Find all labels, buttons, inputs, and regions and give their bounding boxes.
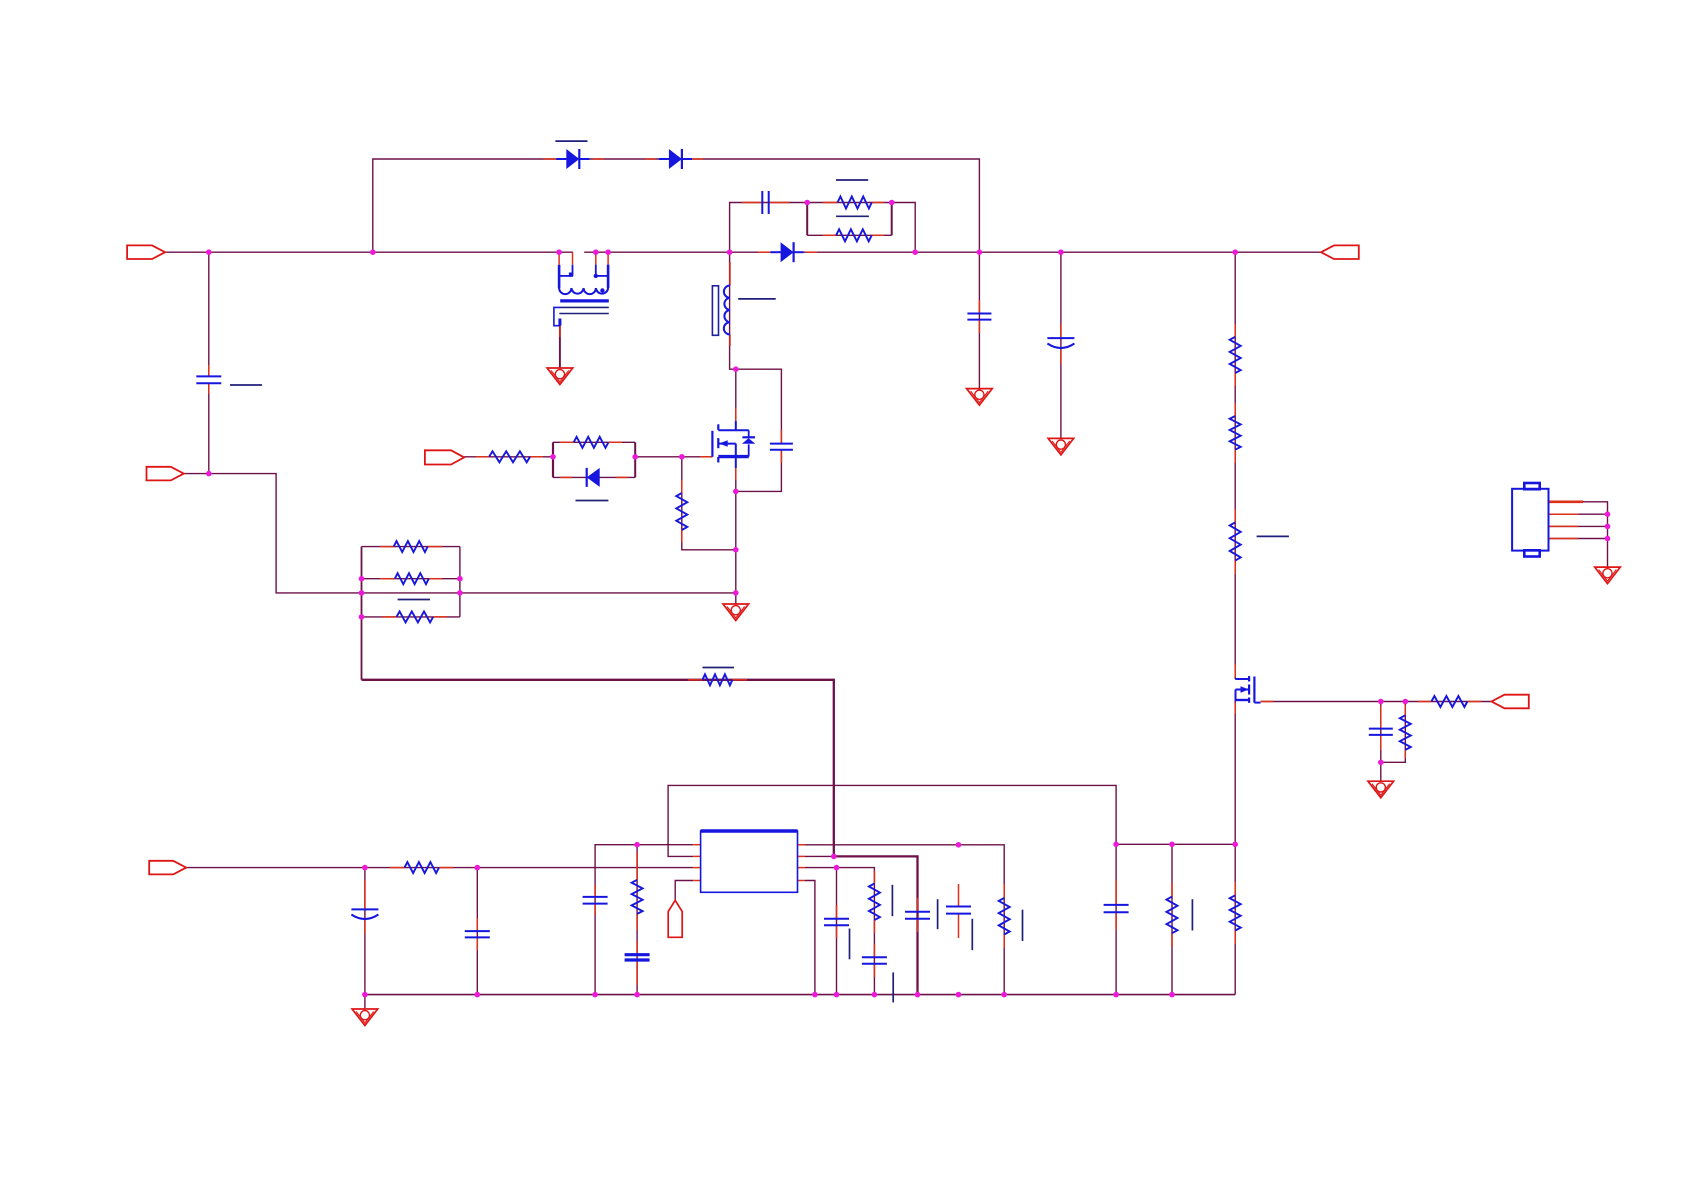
pin stub transformer pin1: [558, 252, 560, 265]
pin stubs divider R mid: [380, 578, 442, 580]
resistor R snubber bottom: [836, 229, 872, 241]
label R snubber bottom: [836, 215, 869, 217]
diode D1: [556, 149, 589, 169]
wire connector pin1: [1549, 502, 1608, 567]
wire input filter cap branch: [364, 868, 366, 995]
resistor R gate pulldown: [676, 493, 687, 530]
wire port2 to divider network: [184, 474, 362, 593]
diode D4 gate box: [587, 468, 600, 487]
pin stubs R1172: [1171, 883, 1173, 947]
pin stubs C637: [636, 941, 638, 985]
wire bulk cap drop: [208, 252, 210, 376]
ground at Q2 gate RC: [1368, 781, 1394, 798]
label R874: [891, 885, 893, 916]
resistor R Q2 gate gnd: [1400, 715, 1411, 750]
wire main bus left segment (VIN+ rail): [165, 251, 573, 253]
resistor R rail1: [1230, 337, 1241, 373]
wire bottom ground bus: [365, 994, 1235, 996]
connector J1: [1512, 483, 1548, 557]
label C836: [849, 929, 851, 960]
resistor R gate box: [574, 437, 609, 448]
pin stubs rail R3: [1234, 509, 1236, 574]
pin stub connector pin3 red: [1549, 525, 1579, 527]
resistor R1235: [1230, 895, 1241, 930]
wire divider row top: [362, 546, 460, 548]
resistor R637: [632, 880, 643, 914]
capacitor C bus1: [967, 314, 991, 320]
wire gate box left edge: [552, 442, 554, 477]
wire drain-source snubber cap branch: [736, 369, 782, 443]
pin stubs divider R bottom: [382, 616, 447, 618]
wire gate pulldown branch: [682, 457, 736, 550]
capacitor C bus2 polarized: [1047, 338, 1074, 348]
pin stub connector pin2 red: [1549, 513, 1579, 515]
pin stub transformer pin3: [595, 252, 597, 264]
U1 controller IC: [701, 831, 798, 892]
pin stubs divider R top: [380, 546, 442, 548]
pin stub transformer pin4: [607, 252, 609, 264]
pin stubs snubber R bottom: [823, 234, 884, 236]
capacitor C637 thick: [625, 955, 650, 960]
wire U1 pin8 row: [805, 845, 1004, 995]
wire snubber box output: [892, 203, 916, 253]
capacitor C1 bulk: [196, 376, 221, 383]
pin stubs C595: [594, 885, 596, 915]
wire bus cap1 drop: [978, 252, 980, 388]
capacitor C836: [824, 919, 849, 926]
pin stubs C917: [917, 898, 919, 932]
pin stubs Q2 gate cap: [1380, 706, 1382, 750]
resistor R divider mid: [395, 573, 429, 584]
resistor R1172: [1167, 897, 1178, 934]
capacitor C snubber: [762, 191, 768, 214]
capacitor C917: [905, 912, 930, 919]
pin stubs bus cap2: [1060, 324, 1062, 364]
wire connector pin3: [1549, 525, 1608, 527]
wire U1 pin1 row: [595, 845, 693, 995]
wire opto rail: [1171, 844, 1173, 994]
pin stubs Q2 gate resistor: [1418, 701, 1481, 703]
wire U1 pin3 input row: [186, 867, 693, 869]
wire snubber box left edge: [806, 203, 808, 236]
port P2 divider input: [147, 467, 184, 481]
ground at connector: [1595, 567, 1621, 584]
port P5 output right: [1321, 245, 1359, 259]
wire sense line long bottom: [362, 680, 834, 857]
capacitor C595: [583, 897, 608, 904]
pin stubs R1004: [1003, 884, 1005, 948]
transformer T1: [554, 265, 609, 326]
wire feedback row to output rail: [1116, 843, 1235, 845]
pin stub transformer pin2: [572, 252, 574, 265]
wire snubber cap to source node: [736, 450, 782, 492]
pin stubs gate box resistor: [560, 441, 622, 443]
wire snubber cap branch: [730, 203, 808, 253]
pin stub transformer aux: [559, 326, 561, 337]
wire gate box top row: [553, 441, 635, 443]
pin stubs U1 left: [693, 845, 700, 881]
ground at bus cap2: [1048, 438, 1074, 455]
label D4: [576, 500, 609, 502]
wire snubber box bottom: [807, 234, 892, 236]
pin stubs C836: [836, 905, 838, 938]
inductor L1 with core bar: [712, 286, 730, 336]
wire Q2 gate res branch: [1381, 702, 1406, 763]
resistor R874: [869, 884, 880, 921]
wire transformer aux to ground: [559, 326, 561, 368]
pin stubs R874: [873, 871, 875, 933]
capacitor C Q2 gate: [1369, 729, 1393, 735]
resistor R divider bottom: [397, 611, 434, 622]
pin stubs rail R1: [1234, 324, 1236, 386]
wire main bus right segment: [584, 251, 1321, 253]
wire feedback drop to bus: [1115, 844, 1117, 994]
port P4 gate drive: [425, 450, 464, 464]
wire ground stub below bus: [364, 995, 366, 1009]
wire top snubber loop: [373, 159, 980, 252]
resistor R input: [405, 862, 440, 873]
wire output rail lower: [1234, 844, 1236, 994]
wire Q1 source chain: [735, 457, 737, 604]
port P3 supply input: [149, 861, 186, 875]
pin stubs input resistor: [390, 867, 453, 869]
pin stubs R1235: [1234, 882, 1236, 944]
capacitor C input2: [465, 931, 490, 937]
wire gate box to Q1 gate: [635, 456, 712, 458]
wire Q2 gate cap branch: [1380, 702, 1382, 763]
transistor Q2 MOSFET: [1235, 676, 1260, 703]
wire gate box bottom row: [553, 476, 635, 478]
wire connector pin2: [1549, 513, 1608, 515]
wire divider output row: [362, 592, 736, 594]
resistor R divider top: [394, 541, 428, 552]
label C1: [230, 384, 262, 386]
pin stubs Q2: [1235, 664, 1273, 714]
pin stub connector pin1 red: [1549, 500, 1584, 503]
pin stubs bulk cap C1: [208, 365, 210, 394]
wire inductor branch: [730, 252, 736, 369]
label C917: [937, 899, 939, 929]
wire gate box right edge: [634, 442, 636, 477]
wire bus cap2 drop: [1060, 252, 1062, 438]
pin stubs snubber R top: [823, 202, 884, 204]
pin stub connector pin4 red: [1549, 538, 1579, 540]
label R rail3: [1257, 535, 1289, 537]
pin stubs snubber cap: [742, 202, 789, 204]
pin stubs R637: [636, 852, 638, 930]
wire Q2 gate line: [1261, 701, 1492, 703]
label R1004: [1022, 910, 1024, 941]
capacitor C input polarized: [351, 909, 378, 919]
pin stubs diode D2: [645, 158, 703, 160]
transistor Q1 MOSFET: [712, 421, 755, 468]
wire U1 pin4 to flag: [675, 881, 693, 901]
label C958: [971, 919, 973, 950]
ground at transformer aux: [547, 368, 573, 385]
label L1: [738, 298, 776, 300]
ground at bus cap1: [967, 389, 993, 406]
pin stubs gate box diode: [560, 476, 628, 478]
pin stubs gate resistor: [476, 456, 543, 458]
diode D2: [659, 149, 692, 169]
pin stubs C1116: [1115, 880, 1117, 930]
wire divider row mid: [362, 578, 460, 580]
resistor R sense: [703, 674, 733, 685]
wire Q2 gate RC ground stub: [1380, 762, 1382, 781]
wire U1 pin6 row: [805, 868, 874, 995]
wire output rail upper: [1234, 252, 1236, 679]
capacitor C874: [862, 957, 887, 964]
resistor R rail2: [1230, 416, 1241, 450]
wire U1 pin7 row: [805, 856, 918, 994]
wire divider right edge: [459, 547, 461, 617]
wire output rail Q2 source: [1234, 700, 1236, 844]
label D1: [555, 140, 587, 142]
port P1 line input: [127, 245, 165, 259]
pin stubs Q1 snubber cap: [780, 430, 782, 463]
label R1172: [1191, 899, 1193, 930]
ground at Q1 source: [723, 604, 749, 621]
wire drain node to Q1: [735, 369, 737, 430]
wire divider row bottom: [362, 616, 460, 618]
capacitor C drain snubber: [770, 444, 793, 450]
pin stubs C874: [873, 944, 875, 977]
wire snubber box top: [807, 202, 892, 204]
wire bulk cap to port2 node: [208, 383, 210, 473]
wire U1 pin6 cap branch: [836, 868, 838, 995]
resistor R1004: [999, 898, 1010, 935]
wire connector pin4: [1549, 538, 1608, 540]
port P6 Q2 gate: [1492, 695, 1529, 709]
wire input filter cap2 branch: [476, 868, 478, 995]
capacitor C958: [946, 907, 971, 914]
pin stubs input cap pol: [364, 880, 366, 934]
pin stubs input cap2: [476, 918, 478, 950]
label R sense: [703, 667, 735, 669]
pin stubs C958: [958, 884, 960, 938]
wire U1 pin1 RC branch: [636, 845, 638, 995]
pin stubs U1 right: [798, 845, 806, 881]
wire snubber box right edge: [891, 203, 893, 236]
resistor R snubber top: [838, 197, 872, 209]
diode D3: [771, 242, 804, 262]
wire gate drive port to box: [464, 456, 553, 458]
pin stubs diode D3: [758, 251, 817, 253]
pin stubs bus cap1: [978, 300, 980, 333]
wire U1 pin5 row: [805, 881, 815, 995]
pin stubs Q1 drain source: [735, 408, 737, 480]
power flag at U1 pin4: [668, 900, 682, 937]
resistor R rail3: [1230, 522, 1241, 560]
pin stub Q1 gate: [700, 456, 712, 458]
pin stubs Q2 gate res2: [1404, 705, 1406, 758]
capacitor C1116: [1104, 905, 1129, 912]
pin stubs gate pulldown R: [681, 480, 683, 542]
label C874: [892, 972, 894, 1002]
label R divider: [398, 599, 430, 601]
label R snubber top: [836, 179, 868, 181]
pin stubs rail R2: [1234, 403, 1236, 463]
pin stubs diode D1: [544, 158, 605, 160]
resistor R gate: [489, 451, 530, 462]
wire feedback top loop: [668, 785, 1116, 856]
pin stubs sense resistor: [688, 679, 747, 681]
ground at input filter: [352, 1009, 378, 1026]
pin stubs inductor: [729, 262, 731, 346]
wire divider left edge: [361, 547, 363, 680]
resistor R Q2 gate: [1431, 696, 1467, 707]
